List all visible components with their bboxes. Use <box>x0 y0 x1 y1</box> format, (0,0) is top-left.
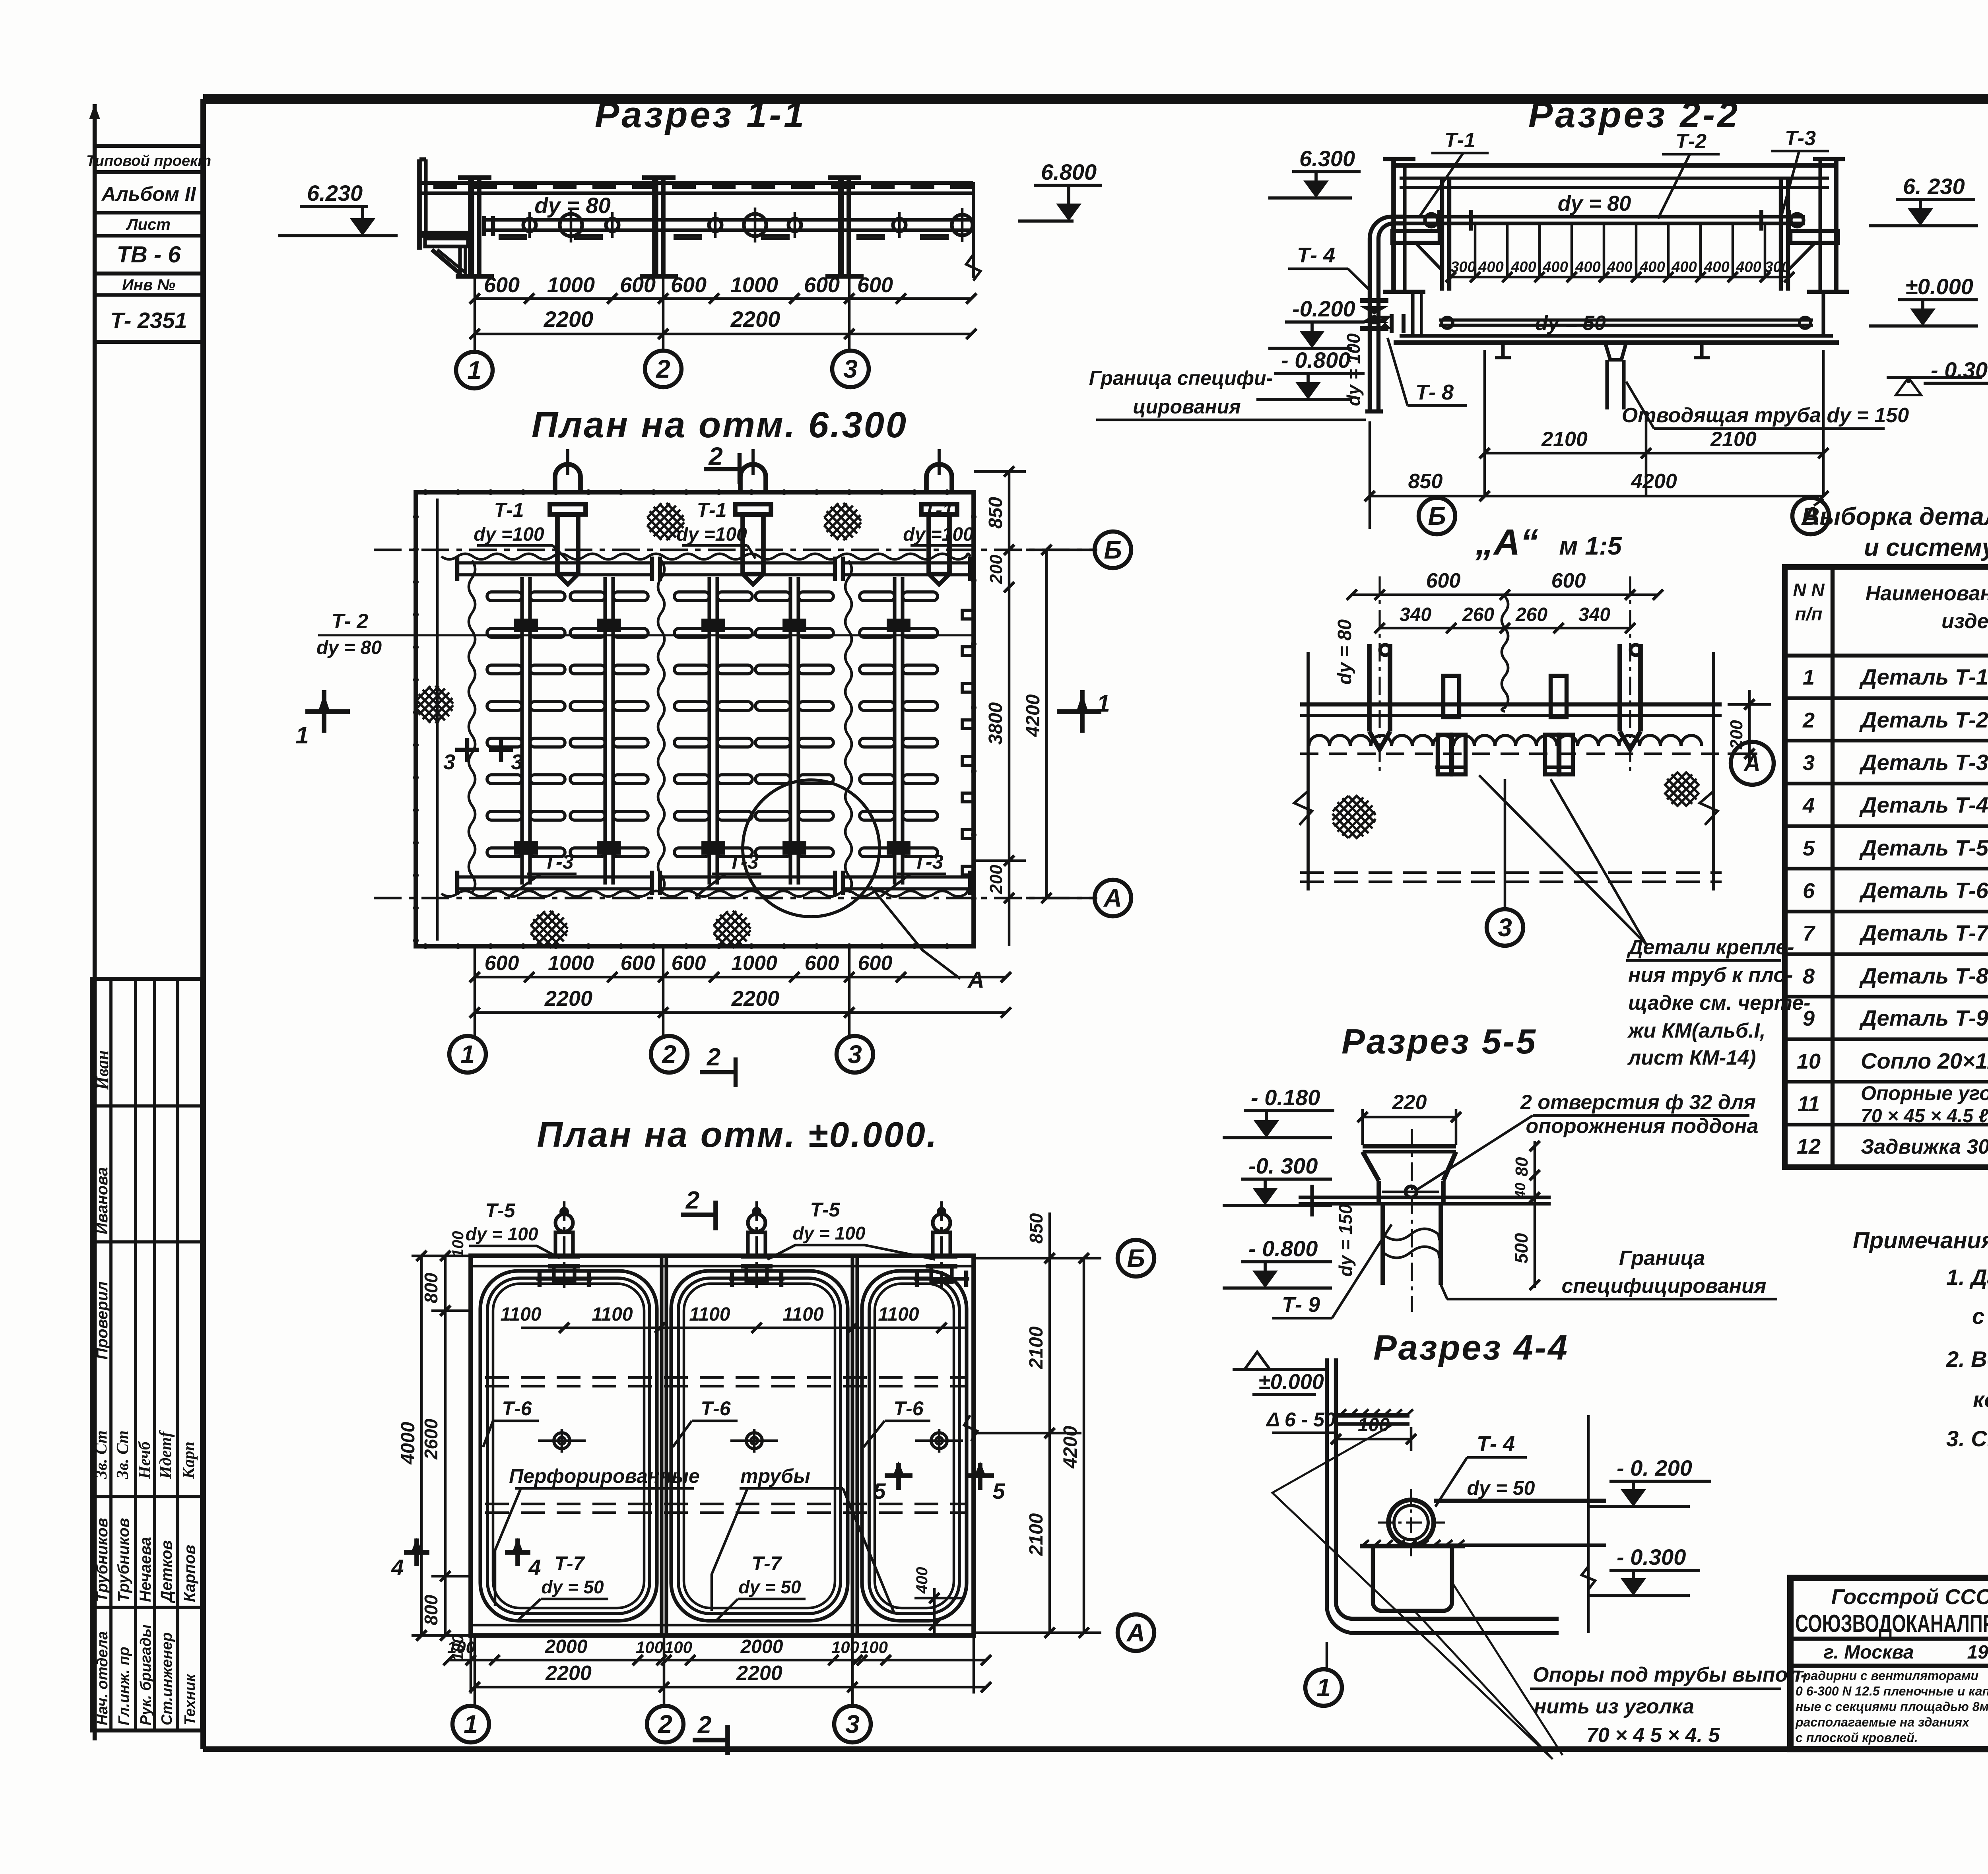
svg-text:600: 600 <box>484 273 520 297</box>
svg-text:10: 10 <box>1797 1050 1821 1073</box>
svg-text:Деталь Т-3: Деталь Т-3 <box>1859 750 1988 775</box>
svg-text:Гл.инж. пр: Гл.инж. пр <box>116 1647 132 1725</box>
svg-text:2000: 2000 <box>545 1636 588 1657</box>
svg-text:N N: N N <box>1793 580 1825 600</box>
svg-text:Деталь Т-1: Деталь Т-1 <box>1859 664 1988 689</box>
plan 6.300: inner wall line left <box>436 499 439 941</box>
svg-text:Δ 6 - 50: Δ 6 - 50 <box>1266 1408 1336 1431</box>
svg-text:800: 800 <box>421 1595 441 1625</box>
svg-text:Б: Б <box>1104 535 1122 564</box>
svg-text:А: А <box>967 967 984 993</box>
svg-text:- 0.800: - 0.800 <box>1281 347 1350 372</box>
svg-text:850: 850 <box>1026 1213 1046 1244</box>
svg-text:Зв. Сm: Зв. Сm <box>114 1430 132 1479</box>
section 4-4: pan L-wall <box>1327 1358 1559 1633</box>
svg-text:0 6-300 N 12.5 пленочные и кап: 0 6-300 N 12.5 пленочные и капель- <box>1796 1684 1988 1698</box>
svg-text:600: 600 <box>804 273 840 297</box>
plan 0.000: cell divider double walls <box>660 1256 663 1635</box>
svg-text:- 0. 200: - 0. 200 <box>1617 1455 1692 1480</box>
plan 6.300: outer boundary <box>416 492 974 946</box>
level -0.200 section 4-4 <box>1609 1480 1711 1483</box>
svg-text:Иван: Иван <box>93 1050 112 1090</box>
svg-text:100: 100 <box>831 1638 859 1657</box>
section 2-2: support shelf right <box>1790 231 1838 243</box>
section 4-4: right dim line with break <box>1587 1415 1590 1633</box>
section 1-1: columns on axes 1 2 3 <box>468 178 473 275</box>
svg-text:2100: 2100 <box>1026 1326 1047 1369</box>
svg-text:Т-6: Т-6 <box>701 1397 731 1420</box>
svg-text:Т-6: Т-6 <box>502 1397 532 1420</box>
svg-text:340: 340 <box>1400 604 1431 625</box>
svg-text:dy = 100: dy = 100 <box>466 1224 538 1244</box>
svg-text:изделия: изделия <box>1941 610 1988 633</box>
level -0.200 left <box>1285 320 1365 324</box>
svg-text:Т-1: Т-1 <box>924 499 953 521</box>
svg-text:Б: Б <box>1127 1244 1145 1273</box>
plan 6.300: hatch patches <box>416 708 431 723</box>
section 1-1: left ledge and bracket <box>420 231 472 235</box>
svg-text:2: 2 <box>697 1711 711 1739</box>
svg-text:Выборка деталей на водорасп: Выборка деталей на водораспределительную… <box>1802 503 1988 530</box>
svg-text:2100: 2100 <box>1710 428 1757 451</box>
svg-text:1: 1 <box>467 356 481 384</box>
axis circle 1 <box>456 352 493 388</box>
svg-text:3: 3 <box>843 355 858 383</box>
svg-text:5: 5 <box>992 1478 1005 1503</box>
plan 6.300: section mark 1 right <box>1057 709 1101 714</box>
svg-text:3: 3 <box>845 1710 860 1738</box>
svg-text:1: 1 <box>295 722 309 749</box>
svg-text:5: 5 <box>873 1478 886 1503</box>
svg-text:Деталь Т-6: Деталь Т-6 <box>1859 878 1988 903</box>
svg-text:100: 100 <box>1358 1414 1390 1436</box>
plan 6.300: right edge half nozzle pills <box>962 610 973 619</box>
svg-text:нить из уголка: нить из уголка <box>1534 1695 1694 1718</box>
svg-text:1000: 1000 <box>548 952 594 975</box>
table column lines <box>1831 567 1835 1167</box>
level mark 6.230 left <box>300 205 368 208</box>
section 1-1: platform deck <box>419 181 973 185</box>
section 1-1: axis extension lines <box>474 278 476 352</box>
svg-text:1: 1 <box>464 1710 478 1738</box>
plan 6.300: detail circle А <box>743 780 879 917</box>
plan 0.000: drain target circles <box>554 1433 570 1449</box>
level mark 6.800 right <box>1034 184 1102 187</box>
svg-text:6: 6 <box>1803 879 1815 903</box>
section 1-1: dimension row 600 1000 600 600 1000 600 600 <box>475 297 971 300</box>
svg-text:План на отм. 6.300: План на отм. 6.300 <box>532 405 908 445</box>
plan 0.000: outer boundary <box>471 1256 974 1635</box>
svg-text:3: 3 <box>443 750 455 774</box>
section 5-5: right vertical dims 80 40 500 <box>1534 1141 1536 1288</box>
level -0.300 section 5-5 <box>1241 1178 1332 1181</box>
detail A: dim row 340 260 260 340 <box>1380 627 1630 630</box>
svg-text:400: 400 <box>1639 259 1665 275</box>
svg-text:400: 400 <box>1542 259 1568 275</box>
svg-text:специфицирования: специфицирования <box>1561 1275 1766 1298</box>
section 2-2: pipe flanges <box>1437 210 1441 231</box>
section 4-4: pipe T-4 circle <box>1388 1500 1434 1545</box>
section 2-2: hangers under pan <box>1501 343 1505 358</box>
svg-text:Детков: Детков <box>158 1540 175 1603</box>
svg-text:400: 400 <box>1575 259 1600 275</box>
plan 0.000: risers Т-5 with valves on top edge <box>563 1201 566 1288</box>
detail A: dim row 600 600 <box>1352 594 1658 596</box>
svg-text:Примечания:: Примечания: <box>1853 1228 1988 1253</box>
svg-text:Т-7: Т-7 <box>752 1552 782 1575</box>
svg-text:ТВ - 6: ТВ - 6 <box>116 242 181 268</box>
svg-text:Альбом II: Альбом II <box>101 183 196 205</box>
svg-text:Техник: Техник <box>182 1673 198 1725</box>
plan 0.000: dimension row 1100 x5 <box>521 1327 966 1329</box>
axis circle Б right <box>1026 549 1095 551</box>
svg-text:Деталь Т-2: Деталь Т-2 <box>1859 707 1988 732</box>
section 5-5: lower pipe dy=150 with breaks <box>1380 1204 1385 1285</box>
svg-text:2. Все трубы должны быть п: 2. Все трубы должны быть покрыты анти- <box>1946 1346 1988 1372</box>
svg-text:dy = 80: dy = 80 <box>1558 192 1631 215</box>
section 4-4: axis circle 1 <box>1326 1642 1328 1670</box>
svg-text:Задвижка 30ч6бр dy=100: Задвижка 30ч6бр dy=100 <box>1861 1135 1988 1158</box>
svg-text:40: 40 <box>1512 1183 1528 1199</box>
svg-text:3. Сварки производить электр: 3. Сварки производить электродами э-42. <box>1946 1426 1988 1451</box>
svg-text:2: 2 <box>656 355 670 383</box>
svg-text:6.230: 6.230 <box>307 180 363 206</box>
svg-text:2: 2 <box>708 442 723 471</box>
svg-text:ния труб к пло-: ния труб к пло- <box>1628 964 1793 987</box>
svg-text:цирования: цирования <box>1133 396 1241 418</box>
svg-text:2200: 2200 <box>544 307 594 332</box>
svg-text:лист КМ-14): лист КМ-14) <box>1627 1046 1756 1069</box>
level ±0.000 section 4-4 <box>1233 1368 1327 1371</box>
svg-text:2100: 2100 <box>1026 1513 1047 1556</box>
svg-text:План на отм. ±0.000.: План на отм. ±0.000. <box>537 1115 938 1155</box>
svg-text:Трубников: Трубников <box>115 1518 132 1602</box>
svg-text:500: 500 <box>1511 1233 1532 1263</box>
svg-text:70 × 4 5 × 4. 5: 70 × 4 5 × 4. 5 <box>1586 1724 1720 1747</box>
svg-text:4000: 4000 <box>398 1422 419 1465</box>
svg-text:жи КМ(альб.I,: жи КМ(альб.I, <box>1627 1019 1765 1042</box>
svg-text:400: 400 <box>1704 259 1729 275</box>
svg-text:dy =100: dy =100 <box>474 524 544 545</box>
svg-text:±0.000: ±0.000 <box>1905 274 1973 299</box>
section 2-2: left riser pipe dy=100 with elbow and valve <box>1370 217 1406 411</box>
svg-text:-0.200: -0.200 <box>1292 296 1355 321</box>
svg-text:12: 12 <box>1797 1135 1821 1158</box>
svg-text:dy = 50: dy = 50 <box>738 1577 801 1597</box>
plan 0.000: bottom dims 2200 2200 <box>475 1686 986 1689</box>
svg-text:dy = 80: dy = 80 <box>1334 619 1355 685</box>
svg-text:dy = 50: dy = 50 <box>1535 312 1606 335</box>
svg-text:Т- 9: Т- 9 <box>1282 1293 1320 1317</box>
level 6.230 right of section 2-2 <box>1896 198 1975 201</box>
svg-text:Градирни с вентиляторами: Градирни с вентиляторами <box>1796 1668 1978 1683</box>
svg-text:Т- 8: Т- 8 <box>1415 380 1454 404</box>
svg-text:3: 3 <box>848 1040 862 1069</box>
svg-text:300: 300 <box>1765 259 1790 275</box>
plan 6.300: water edge wavy lines <box>441 554 970 559</box>
section 5-5: drain holes circle <box>1406 1186 1417 1197</box>
svg-text:Т-3: Т-3 <box>914 851 944 873</box>
plan 0.000: bottom dims 100 2000 100 100 2000 100 100 <box>470 1635 472 1694</box>
svg-text:6. 230: 6. 230 <box>1903 174 1965 199</box>
svg-text:Т-5: Т-5 <box>485 1199 516 1222</box>
svg-text:Идemf: Идemf <box>157 1430 175 1479</box>
svg-text:Деталь Т-7: Деталь Т-7 <box>1859 920 1988 945</box>
plan 6.300: bottom dimension row 2200 2200 <box>475 1011 1006 1014</box>
svg-text:1: 1 <box>1316 1673 1331 1702</box>
svg-text:2600: 2600 <box>421 1418 441 1460</box>
plan 6.300: section mark 3 arrows <box>455 748 479 752</box>
section 1-1: small pipe supports under pipe <box>499 234 527 237</box>
level -0.180 <box>1244 1109 1334 1112</box>
svg-text:340: 340 <box>1578 604 1610 625</box>
svg-text:100: 100 <box>449 1231 467 1258</box>
svg-text:100: 100 <box>447 1638 475 1657</box>
plan 6.300: right dimension lines 850 200 3800 200 4200 <box>974 470 1026 473</box>
svg-text:1100: 1100 <box>689 1304 730 1325</box>
svg-text:400: 400 <box>913 1567 931 1594</box>
svg-text:Нач. отдела: Нач. отдела <box>94 1631 111 1725</box>
section 4-4: pipe dy=50 horizontal lines <box>1434 1499 1606 1503</box>
svg-text:2: 2 <box>685 1187 699 1214</box>
svg-text:3: 3 <box>511 750 523 774</box>
axis circle А right plan 0.000 <box>1118 1614 1154 1651</box>
svg-text:4200: 4200 <box>1631 470 1677 493</box>
svg-text:Граница: Граница <box>1619 1247 1705 1270</box>
svg-text:200: 200 <box>986 555 1006 584</box>
plan 0.000: section mark 4 arrows <box>404 1550 429 1555</box>
plan 6.300: bottom dimension row 600 1000 600 600 1000 600 600 <box>475 976 1006 979</box>
svg-text:1100: 1100 <box>592 1304 633 1325</box>
svg-text:2200: 2200 <box>730 307 780 332</box>
svg-text:5: 5 <box>1803 836 1815 860</box>
table row lines <box>1785 696 1988 700</box>
detail A: platform deck lines <box>1300 702 1722 706</box>
svg-text:300: 300 <box>1450 259 1475 275</box>
plan 0.000: section mark 5 arrows <box>885 1473 912 1478</box>
svg-text:Граница специфи-: Граница специфи- <box>1089 367 1273 389</box>
svg-text:Кapn: Кapn <box>180 1441 198 1479</box>
sheet frame outer left trim line <box>93 104 97 1740</box>
svg-text:и систему обогрева паддона: и систему обогрева паддона градирен <box>1864 534 1988 561</box>
svg-text:п/п: п/п <box>1795 603 1823 624</box>
svg-text:Перфорированные: Перфорированные <box>509 1465 700 1487</box>
plan 6.300: axis А line <box>374 897 1097 900</box>
svg-text:600: 600 <box>1426 569 1461 592</box>
svg-text:Деталь Т-9: Деталь Т-9 <box>1859 1005 1988 1030</box>
svg-text:Деталь Т-5: Деталь Т-5 <box>1859 835 1988 860</box>
svg-text:1100: 1100 <box>500 1304 542 1325</box>
svg-text:Лист: Лист <box>126 216 171 233</box>
axis circle 1 bottom plan 6.300 <box>449 1036 486 1073</box>
svg-text:„А“: „А“ <box>1475 522 1538 563</box>
svg-text:А: А <box>1743 751 1761 776</box>
svg-text:- 0.300: - 0.300 <box>1617 1544 1686 1569</box>
detail A: axis circle 3 below <box>1504 779 1507 910</box>
svg-text:с листом ТВ - 7.: с листом ТВ - 7. <box>1972 1304 1988 1329</box>
svg-text:г. Москва: г. Москва <box>1823 1642 1914 1663</box>
svg-text:70 × 45 × 4.5 ℓ = 100: 70 × 45 × 4.5 ℓ = 100 <box>1861 1106 1988 1127</box>
svg-text:1: 1 <box>1097 690 1110 717</box>
svg-text:100: 100 <box>664 1638 692 1657</box>
plan 6.300: axis extensions down <box>474 948 476 1036</box>
svg-text:Госстрой СССР: Госстрой СССР <box>1831 1585 1988 1609</box>
svg-text:2: 2 <box>707 1044 720 1071</box>
svg-text:1000: 1000 <box>547 273 595 297</box>
svg-text:dy =100: dy =100 <box>676 524 747 545</box>
svg-text:2000: 2000 <box>740 1636 783 1657</box>
svg-text:А: А <box>1103 884 1122 912</box>
svg-text:1100: 1100 <box>878 1304 919 1325</box>
plan 6.300: bottom header pipes <box>457 875 652 879</box>
section 2-2: small valve T-8 at pan left <box>1390 314 1394 333</box>
axis circle 2 bottom plan 6.300 <box>651 1036 687 1073</box>
svg-text:1: 1 <box>460 1040 475 1069</box>
svg-text:2200: 2200 <box>736 1662 782 1685</box>
axis circle 2 <box>645 351 681 387</box>
svg-text:м 1:5: м 1:5 <box>1559 532 1622 560</box>
svg-text:dy = 100: dy = 100 <box>793 1223 866 1244</box>
plan 6.300: risers T-1 dy=100 <box>555 464 580 492</box>
plan 0.000: horizontal dashed pipe lines <box>485 1376 966 1379</box>
svg-text:600: 600 <box>620 273 656 297</box>
svg-text:2200: 2200 <box>544 987 592 1011</box>
detail A: vertical break wavy line <box>1502 596 1508 712</box>
plan 6.300: section mark 1 left <box>305 709 350 714</box>
section 4-4: top angle bracket <box>1336 1413 1409 1418</box>
section 4-4: support channel <box>1373 1546 1452 1611</box>
svg-text:1975г.: 1975г. <box>1967 1642 1988 1663</box>
svg-text:dy = 80: dy = 80 <box>316 637 382 658</box>
level 6.300 left of section 2-2 <box>1292 170 1361 173</box>
svg-text:Наименование и марка: Наименование и марка <box>1866 582 1988 605</box>
svg-text:Т- 2: Т- 2 <box>332 610 369 633</box>
section 2-2: valve on riser <box>1360 298 1388 303</box>
detail A: mounting clamps <box>1443 676 1459 717</box>
svg-text:Т-1: Т-1 <box>1444 129 1475 152</box>
axis circle 3 bottom plan 6.300 <box>837 1036 873 1073</box>
section 2-2: droppers with dim row 300 400x9 300 <box>1474 223 1477 277</box>
svg-text:Т- 4: Т- 4 <box>1297 243 1335 267</box>
left stamp box: Типовой проект / Альбом II / Лист / ТВ-6 / Инв № / Т-2351 <box>95 146 203 342</box>
svg-text:600: 600 <box>805 952 839 975</box>
detail A: circle А marker <box>1731 742 1774 785</box>
svg-text:1000: 1000 <box>731 952 777 975</box>
svg-text:dy =100: dy =100 <box>903 524 974 545</box>
svg-text:600: 600 <box>485 952 519 975</box>
svg-text:Рук. бригады: Рук. бригады <box>138 1624 154 1725</box>
section 5-5: 220 dim <box>1363 1116 1456 1119</box>
svg-text:Зв. Сm: Зв. Сm <box>92 1430 111 1479</box>
svg-text:2200: 2200 <box>731 987 779 1011</box>
svg-text:2: 2 <box>662 1040 676 1069</box>
svg-text:опорожнения поддона: опорожнения поддона <box>1526 1115 1759 1138</box>
section 5-5: plate <box>1299 1195 1551 1199</box>
plan 6.300: perforated vertical pipes with nozzles <box>520 577 524 885</box>
svg-text:Б: Б <box>1428 502 1446 530</box>
svg-text:6.800: 6.800 <box>1041 159 1097 184</box>
svg-text:3800: 3800 <box>985 702 1006 745</box>
svg-text:600: 600 <box>672 952 706 975</box>
plan 6.300: rivet dots left and right edges <box>413 514 419 520</box>
svg-text:1. Данныи лист смотрите сов: 1. Данныи лист смотрите совместно <box>1946 1265 1988 1290</box>
svg-text:Нечб: Нечб <box>136 1441 154 1479</box>
svg-text:dy = 50: dy = 50 <box>1467 1477 1535 1499</box>
plan 6.300: wavy section division lines <box>469 561 475 892</box>
svg-text:4: 4 <box>528 1555 541 1580</box>
axis circle 3 <box>832 351 869 387</box>
svg-text:с плоской кровлей.: с плоской кровлей. <box>1796 1730 1918 1745</box>
svg-text:2: 2 <box>658 1710 672 1738</box>
axis circle А right <box>1026 897 1095 900</box>
svg-text:800: 800 <box>421 1273 441 1303</box>
section 1-1: nozzle circles on pipe <box>523 219 536 231</box>
svg-text:Т-3: Т-3 <box>544 851 574 873</box>
svg-text:200: 200 <box>986 865 1006 894</box>
svg-text:Т- 4: Т- 4 <box>1477 1432 1515 1456</box>
svg-text:Т-7: Т-7 <box>555 1552 585 1575</box>
section 1-1: right break mark <box>972 182 975 278</box>
detail A: leader to крепление text <box>1479 775 1646 944</box>
section 2-2: right end column <box>1818 159 1822 292</box>
svg-text:2100: 2100 <box>1541 428 1588 451</box>
svg-text:Нечаева: Нечаева <box>137 1537 154 1602</box>
plan 6.300: rivet dots top and bottom edges <box>423 489 428 495</box>
section 2-2: top platform band <box>1394 163 1836 168</box>
section 2-2: support shelf left <box>1392 231 1440 243</box>
level ±0.000 right <box>1898 298 1978 301</box>
svg-text:400: 400 <box>1736 259 1761 275</box>
svg-text:3: 3 <box>1803 751 1815 775</box>
svg-text:600: 600 <box>858 952 893 975</box>
section 1-1: distribution pipe dy=80 <box>484 218 973 221</box>
svg-text:А: А <box>1126 1618 1145 1647</box>
plan 6.300: axis Б line <box>374 549 1097 551</box>
svg-text:- 0.800: - 0.800 <box>1248 1236 1318 1261</box>
svg-text:Опоры под трубы выпол-: Опоры под трубы выпол- <box>1533 1663 1807 1686</box>
plan 0.000: axis extensions and circles 1 2 3 <box>474 1635 476 1706</box>
svg-text:850: 850 <box>1408 470 1443 493</box>
svg-text:Т-1: Т-1 <box>697 499 727 521</box>
svg-text:Т-2: Т-2 <box>1675 130 1706 153</box>
svg-text:400: 400 <box>1510 259 1536 275</box>
svg-text:Разрез 2-2: Разрез 2-2 <box>1528 95 1740 135</box>
axis circle Б section 2-2 <box>1419 498 1455 534</box>
svg-text:располагаемые на зданиях: располагаемые на зданиях <box>1795 1715 1970 1729</box>
section 2-2: pipe dy=80 horizontal <box>1406 215 1805 218</box>
svg-text:- 0.180: - 0.180 <box>1251 1085 1320 1110</box>
svg-text:2 отверстия ф 32 для: 2 отверстия ф 32 для <box>1520 1091 1756 1114</box>
svg-text:Т-1: Т-1 <box>494 499 524 521</box>
svg-text:dy = 50: dy = 50 <box>541 1577 604 1597</box>
svg-text:260: 260 <box>1462 604 1494 625</box>
svg-text:Отводящая труба dy = 150: Отводящая труба dy = 150 <box>1622 404 1909 427</box>
axis circle Б right plan 0.000 <box>1118 1240 1154 1276</box>
svg-text:600: 600 <box>857 273 893 297</box>
svg-text:Проверил: Проверил <box>93 1281 111 1360</box>
svg-text:Т-6: Т-6 <box>894 1397 924 1420</box>
table frame <box>1785 567 1988 1167</box>
detail A: 200 dim right <box>1728 703 1771 706</box>
svg-text:Типовой проект: Типовой проект <box>86 153 211 169</box>
svg-text:7: 7 <box>1803 921 1816 945</box>
svg-text:dy = 150: dy = 150 <box>1335 1204 1356 1276</box>
section 1-1: dimension row 2200 2200 <box>475 333 971 336</box>
svg-text:400: 400 <box>1671 259 1697 275</box>
svg-text:Т- 2351: Т- 2351 <box>111 308 187 333</box>
svg-text:260: 260 <box>1515 604 1547 625</box>
title block frame <box>1790 1578 1988 1749</box>
